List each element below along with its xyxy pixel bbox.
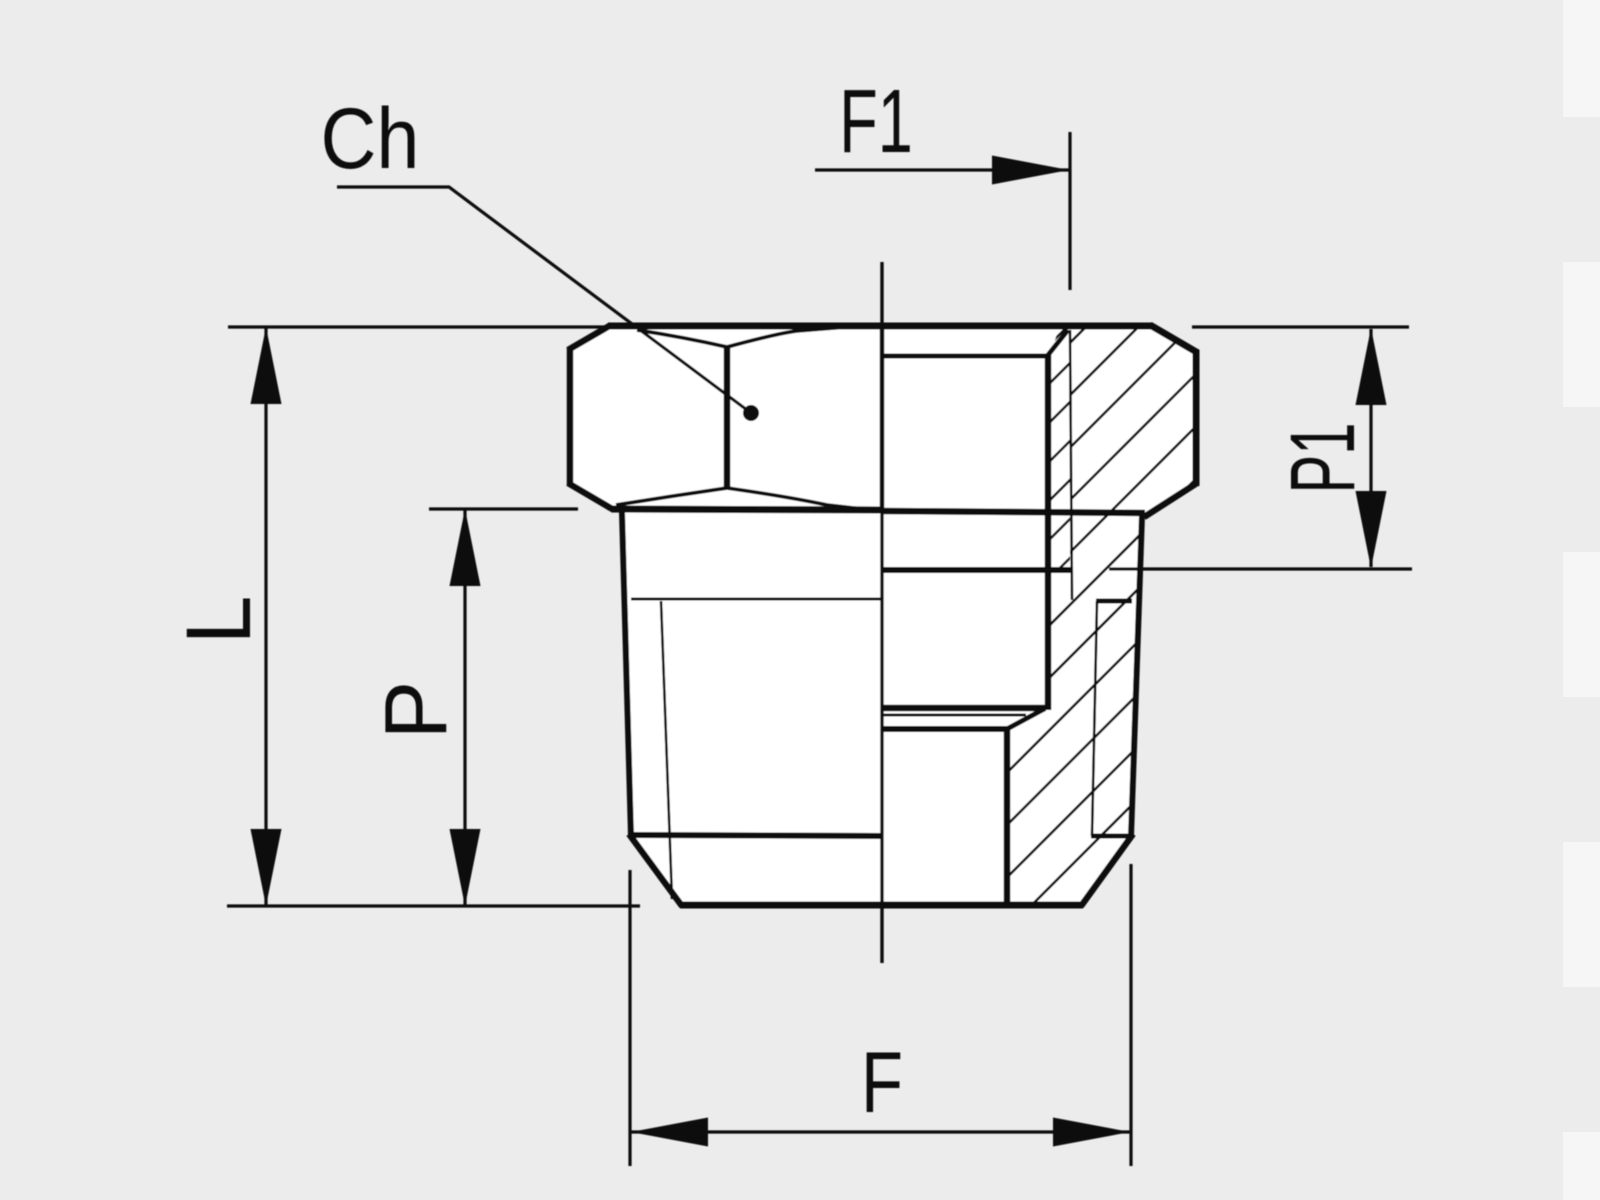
svg-text:Ch: Ch — [321, 91, 420, 187]
svg-text:P1: P1 — [1271, 423, 1374, 494]
svg-text:P: P — [366, 681, 465, 740]
svg-text:F: F — [861, 1035, 903, 1131]
svg-text:F1: F1 — [839, 72, 913, 172]
svg-text:L: L — [168, 596, 271, 645]
